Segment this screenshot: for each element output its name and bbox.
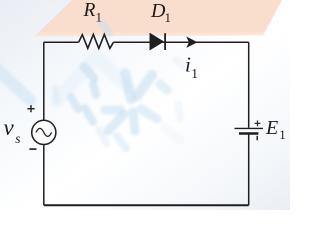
AC source VS: [32, 120, 56, 144]
plus sign battery: [255, 121, 261, 127]
current arrow i1: [186, 37, 197, 48]
wire left: [43, 42, 45, 205]
minus sign source: [29, 148, 36, 150]
wire top: [44, 41, 249, 43]
plus sign source: [27, 105, 34, 112]
battery E1: [235, 128, 264, 133]
svg-text:1: 1: [165, 10, 172, 25]
resistor R1: [79, 34, 114, 48]
svg-text:v: v: [4, 115, 15, 140]
minus tick battery: [256, 136, 258, 141]
label vs: [4, 115, 21, 146]
watermark: [0, 22, 184, 148]
svg-text:s: s: [15, 131, 20, 146]
label R1: [83, 0, 103, 24]
svg-text:R: R: [83, 0, 96, 21]
label D1: [150, 0, 171, 25]
label i1: [185, 53, 198, 82]
peach header band: [34, 0, 282, 37]
svg-text:1: 1: [191, 66, 198, 81]
svg-text:1: 1: [96, 9, 103, 24]
label E1: [265, 117, 286, 142]
svg-text:E: E: [265, 117, 278, 139]
wire bottom: [44, 204, 249, 206]
svg-text:1: 1: [279, 127, 286, 142]
wire right: [248, 42, 250, 205]
diode D1: [150, 33, 165, 50]
svg-text:i: i: [185, 53, 191, 77]
